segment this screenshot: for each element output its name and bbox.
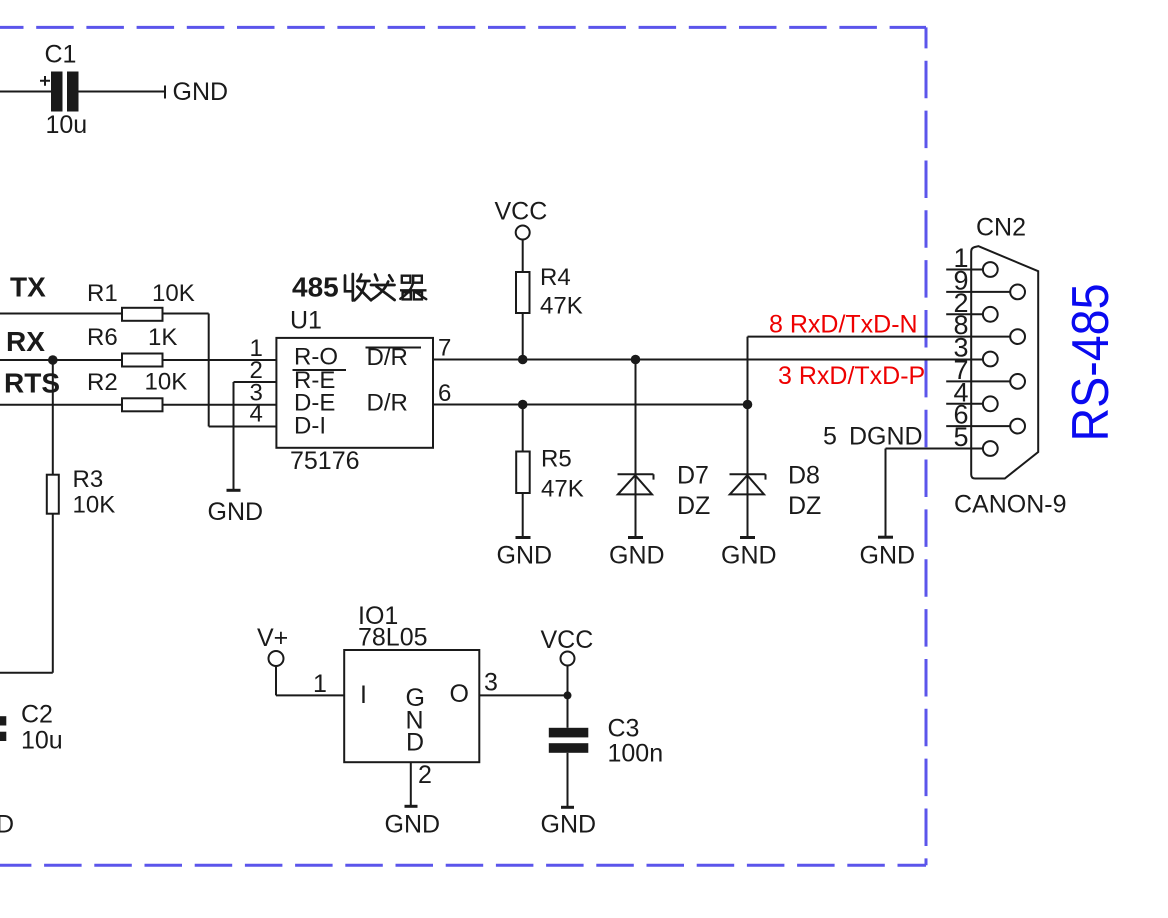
- CN2 pin stub 7: [946, 380, 1010, 382]
- svg-text:47K: 47K: [540, 293, 583, 320]
- svg-text:DZ: DZ: [677, 492, 710, 520]
- resistor R2 10K: [87, 369, 187, 412]
- svg-text:RTS: RTS: [4, 368, 60, 399]
- CN2 pin hole 5: [983, 441, 998, 456]
- svg-text:V+: V+: [257, 624, 288, 652]
- CN2 pin hole 3: [983, 352, 998, 367]
- svg-text:R5: R5: [541, 446, 572, 473]
- svg-text:5: 5: [953, 422, 968, 452]
- CN2 pin hole 7: [1010, 374, 1025, 389]
- svg-text:7: 7: [438, 335, 451, 362]
- resistor R3 10K: [47, 360, 115, 519]
- svg-text:75176: 75176: [290, 447, 360, 475]
- svg-text:GND: GND: [860, 542, 916, 570]
- diode D8 zener: [730, 405, 822, 538]
- wire TX to R1: [0, 313, 122, 315]
- svg-text:GND: GND: [541, 811, 597, 839]
- svg-text:10K: 10K: [145, 369, 188, 396]
- svg-text:GND: GND: [208, 498, 264, 526]
- svg-text:VCC: VCC: [495, 198, 548, 226]
- ground GND at C1: [165, 78, 228, 106]
- svg-text:485: 485: [292, 272, 339, 303]
- ground GND for DGND: [860, 537, 916, 569]
- svg-text:RX: RX: [6, 326, 45, 357]
- svg-text:47K: 47K: [541, 476, 584, 503]
- wire IO1 output to VCC: [479, 694, 567, 696]
- junction R4/line7: [518, 355, 528, 365]
- junction VCC/C3: [564, 691, 572, 699]
- dashed border RS-485 isolation box: [0, 26, 926, 29]
- resistor R6 1K: [87, 324, 177, 367]
- svg-text:GND: GND: [609, 542, 665, 570]
- capacitor C2 10u (partially visible): [0, 701, 63, 755]
- CN2 pin stub 9: [946, 291, 1010, 293]
- svg-text:3: 3: [484, 669, 498, 697]
- ground GND below D7: [609, 538, 665, 570]
- svg-text:2: 2: [418, 761, 432, 789]
- resistor R5 47K: [516, 405, 584, 538]
- svg-text:D8: D8: [788, 462, 820, 490]
- op-amp U1 75176 transceiver box: [276, 307, 433, 476]
- ground GND below IO1: [385, 806, 441, 838]
- CN2 pin hole 2: [983, 307, 998, 322]
- svg-text:C2: C2: [21, 701, 53, 729]
- wire IO1 pin2 to ground: [411, 761, 432, 806]
- svg-text:CANON-9: CANON-9: [954, 491, 1067, 519]
- junction RX/R3: [48, 355, 58, 365]
- svg-text:R3: R3: [73, 466, 104, 493]
- label glyph qi (device): [400, 276, 427, 300]
- connector CN2 CANON-9: [954, 214, 1067, 519]
- capacitor C1: [0, 41, 165, 140]
- svg-text:TX: TX: [10, 272, 46, 303]
- regulator IO1 78L05: [344, 602, 479, 762]
- resistor R1 10K: [87, 280, 195, 321]
- wire R1 to D-I vertical: [163, 314, 277, 427]
- svg-text:DZ: DZ: [788, 492, 821, 520]
- svg-text:O: O: [450, 680, 469, 708]
- svg-text:R4: R4: [540, 264, 571, 291]
- svg-text:78L05: 78L05: [358, 624, 428, 652]
- pin label D/R inverted with overline: [366, 344, 422, 371]
- svg-text:6: 6: [438, 380, 451, 407]
- wire R6 to U1 pin1: [163, 359, 277, 361]
- svg-text:GND: GND: [385, 811, 441, 839]
- wire CN2 pin5 to ground: [886, 449, 983, 538]
- label glyph shou (collect): [345, 274, 371, 301]
- svg-text:4: 4: [250, 401, 263, 428]
- svg-text:100n: 100n: [608, 740, 664, 768]
- svg-text:10K: 10K: [152, 280, 195, 307]
- svg-text:D7: D7: [677, 462, 709, 490]
- power VCC output: [541, 626, 594, 695]
- svg-text:VCC: VCC: [541, 626, 594, 654]
- svg-text:GND: GND: [497, 542, 553, 570]
- CN2 pin stub 6: [946, 425, 1010, 427]
- junction D7/line7: [631, 355, 641, 365]
- svg-text:CN2: CN2: [976, 214, 1026, 242]
- ground GND at U1 pin2: [208, 490, 264, 526]
- CN2 pin hole 1: [983, 262, 998, 277]
- svg-text:3 RxD/TxD-P: 3 RxD/TxD-P: [778, 362, 925, 390]
- CN2 pin stub 2: [946, 313, 983, 315]
- svg-text:GND: GND: [173, 78, 229, 106]
- wire U1 pin7 line A to CN2 pin3: [433, 359, 983, 361]
- wire U1 pin6 line B: [433, 404, 748, 406]
- svg-text:C1: C1: [45, 41, 77, 69]
- svg-text:10K: 10K: [73, 492, 116, 519]
- CN2 pin stub 4: [946, 403, 983, 405]
- svg-text:R6: R6: [87, 324, 118, 351]
- svg-text:D: D: [406, 729, 424, 757]
- svg-text:8 RxD/TxD-N: 8 RxD/TxD-N: [769, 311, 918, 339]
- ground GND below R5: [497, 538, 553, 570]
- svg-text:GND: GND: [0, 811, 14, 839]
- junction R5/line6: [518, 400, 528, 410]
- diode D7 zener: [618, 360, 711, 538]
- svg-text:10u: 10u: [21, 727, 63, 755]
- svg-text:R2: R2: [87, 369, 118, 396]
- svg-text:U1: U1: [290, 307, 322, 335]
- CN2 pin hole 9: [1010, 285, 1025, 300]
- power VCC above R4: [495, 198, 548, 240]
- svg-text:R1: R1: [87, 280, 118, 307]
- power V+ input: [257, 624, 344, 698]
- svg-text:1: 1: [313, 670, 327, 698]
- svg-text:RS-485: RS-485: [1062, 284, 1120, 442]
- label glyph fa (transmit): [371, 275, 395, 301]
- junction D8/line6: [743, 400, 753, 410]
- wire R3 to left edge: [0, 514, 53, 673]
- label 485 transceiver heading: [292, 272, 339, 303]
- svg-text:D/R: D/R: [367, 390, 408, 417]
- svg-text:5: 5: [823, 423, 837, 451]
- wire R2 to U1 pin3: [163, 404, 277, 406]
- svg-text:C3: C3: [608, 715, 640, 743]
- wire line B up to CN2 pin8: [748, 337, 1011, 405]
- svg-text:D-I: D-I: [294, 413, 326, 440]
- ground GND below D8: [721, 538, 777, 570]
- wire RX to R6: [0, 359, 122, 361]
- capacitor C3 100n: [549, 695, 663, 807]
- CN2 pin stub 1: [946, 269, 983, 271]
- resistor R4 47K: [516, 240, 583, 360]
- wire U1 pin2 to ground: [234, 382, 277, 490]
- svg-text:D/R: D/R: [367, 344, 408, 371]
- svg-text:GND: GND: [721, 542, 777, 570]
- CN2 body outline: [971, 246, 1038, 478]
- svg-text:I: I: [360, 681, 367, 709]
- svg-text:1K: 1K: [148, 324, 177, 351]
- wire RTS to R2: [0, 404, 122, 406]
- CN2 pin hole 8: [1010, 329, 1025, 344]
- svg-text:DGND: DGND: [849, 423, 923, 451]
- CN2 pin hole 6: [1010, 419, 1025, 434]
- CN2 pin hole 4: [983, 396, 998, 411]
- svg-text:10u: 10u: [46, 111, 88, 139]
- ground GND below C3: [541, 807, 597, 838]
- pin label R-E with overline: [293, 367, 347, 394]
